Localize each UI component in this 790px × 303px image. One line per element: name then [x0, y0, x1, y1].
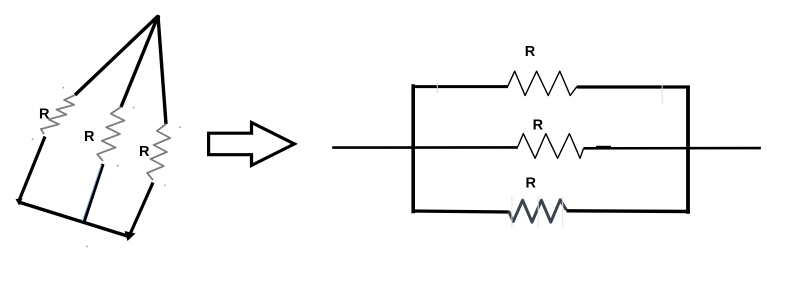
resistor R (bottom branch) — [509, 200, 567, 222]
node bottom-left corner mark — [16, 199, 23, 206]
svg-text:R: R — [84, 129, 95, 145]
wire bottom rail left segment — [412, 211, 510, 212]
wire middle right lead — [583, 147, 761, 150]
resistor R (sketch left) — [41, 95, 75, 134]
wire sketch bottom rail — [19, 202, 130, 237]
wire top rail left segment — [412, 85, 509, 88]
wire top rail right segment — [577, 85, 690, 88]
wire left bus (parallel circuit) — [411, 84, 415, 213]
wire bottom rail right segment — [567, 209, 690, 213]
wire top vertex to R1 — [75, 16, 158, 95]
wire R2 bottom lead — [84, 164, 103, 222]
wire middle left lead — [332, 146, 518, 149]
node bottom junction arrowhead — [125, 231, 136, 241]
svg-text:R: R — [533, 117, 544, 133]
svg-text:R: R — [39, 107, 50, 123]
artifact faint vertical near top-left — [436, 83, 438, 94]
svg-text:R: R — [525, 44, 536, 60]
wire middle right lead overlap — [596, 146, 611, 149]
resistor R (sketch right) — [147, 124, 170, 180]
node TOP (common top vertex of sketch) — [156, 15, 160, 19]
wire top vertex to R3 — [158, 16, 166, 124]
wire right bus (parallel circuit) — [686, 86, 690, 214]
artifact faint vertical near top-right — [661, 83, 663, 104]
svg-text:R: R — [526, 175, 537, 191]
resistor R (sketch middle) — [97, 107, 124, 161]
wire R2 lead blue fringe — [83, 165, 102, 221]
wire R3 bottom lead — [129, 183, 153, 237]
artifact faint verticals under bottom resistor — [511, 196, 513, 228]
wire top vertex to R2 — [121, 16, 158, 107]
arrow (block arrow between circuits) — [209, 123, 295, 166]
wire R1 bottom lead — [19, 137, 46, 203]
specks (paper noise) — [32, 87, 182, 248]
svg-text:R: R — [139, 144, 150, 160]
resistor R (middle branch) — [518, 134, 584, 159]
resistor R (top branch) — [508, 71, 577, 95]
